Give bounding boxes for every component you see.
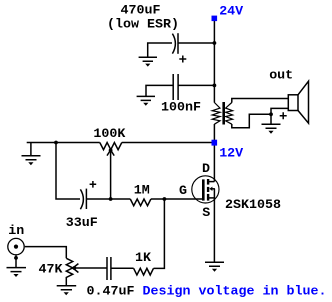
svg-text:1M: 1M	[134, 184, 150, 199]
svg-text:out: out	[269, 68, 293, 83]
svg-text:12V: 12V	[219, 147, 243, 162]
svg-text:G: G	[179, 184, 187, 199]
svg-text:(low ESR): (low ESR)	[107, 17, 179, 32]
svg-text:Design voltage in blue.: Design voltage in blue.	[143, 284, 327, 299]
svg-text:in: in	[8, 224, 24, 239]
svg-text:100nF: 100nF	[161, 101, 201, 116]
svg-text:33uF: 33uF	[66, 216, 98, 231]
svg-text:1K: 1K	[135, 251, 151, 266]
svg-text:D: D	[202, 162, 210, 177]
svg-text:2SK1058: 2SK1058	[225, 198, 281, 213]
svg-text:0.47uF: 0.47uF	[87, 284, 135, 299]
svg-text:470uF: 470uF	[121, 3, 161, 18]
svg-text:24V: 24V	[219, 4, 243, 19]
svg-text:S: S	[202, 206, 210, 221]
svg-text:47K: 47K	[39, 262, 63, 277]
svg-text:100K: 100K	[93, 127, 125, 142]
